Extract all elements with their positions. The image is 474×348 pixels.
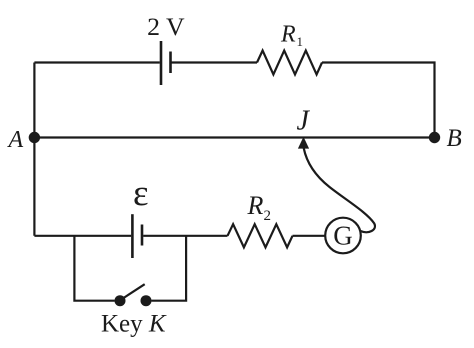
svg-text:Key K: Key K: [101, 311, 167, 338]
svg-text:2: 2: [264, 208, 272, 224]
svg-text:B: B: [447, 125, 462, 152]
svg-text:G: G: [333, 220, 353, 250]
svg-text:A: A: [7, 127, 24, 153]
svg-text:ε: ε: [133, 173, 149, 214]
svg-text:J: J: [297, 105, 311, 136]
svg-text:R: R: [280, 22, 296, 48]
svg-text:2 V: 2 V: [147, 14, 185, 41]
svg-text:R: R: [247, 191, 264, 220]
svg-text:1: 1: [297, 34, 304, 49]
